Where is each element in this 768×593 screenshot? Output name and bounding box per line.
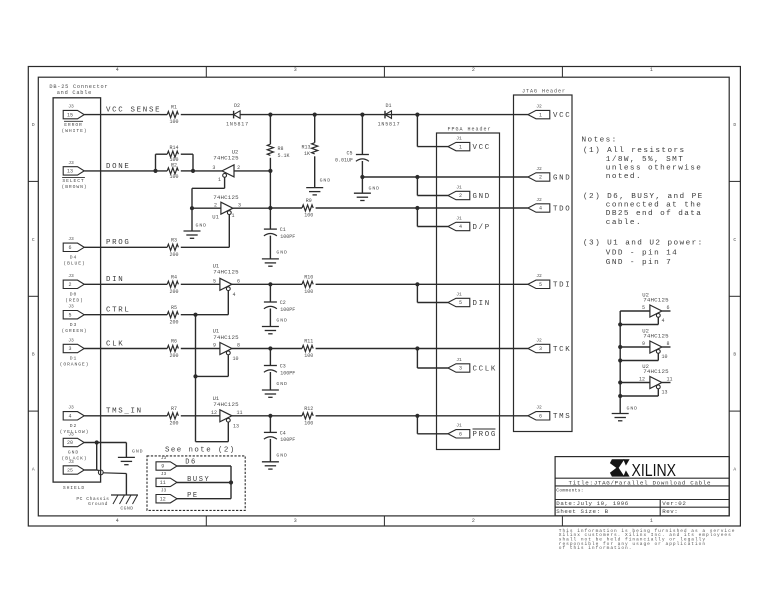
resistor R10 100 [302, 281, 313, 287]
resistor R9 100 [302, 205, 313, 211]
svg-text:R9: R9 [306, 198, 312, 204]
capacitor C3 100PF [269, 349, 271, 366]
wire [240, 114, 528, 116]
svg-text:2: 2 [68, 282, 71, 288]
zone tick [729, 410, 740, 412]
svg-text:CCLK: CCLK [473, 365, 498, 373]
svg-text:J1: J1 [456, 184, 462, 190]
svg-text:4: 4 [539, 206, 542, 212]
svg-text:J3: J3 [68, 304, 74, 310]
svg-text:J3: J3 [68, 236, 74, 242]
svg-text:J3: J3 [161, 488, 167, 494]
svg-text:74HC125: 74HC125 [643, 368, 669, 375]
zone tick [28, 180, 38, 182]
svg-text:R12: R12 [304, 406, 313, 412]
resistor R6 200 [167, 345, 178, 351]
svg-text:R14: R14 [169, 145, 178, 151]
DB-25 connector J3 box [53, 98, 101, 482]
resistor R2 100 [167, 168, 178, 174]
svg-text:6: 6 [539, 414, 542, 420]
svg-text:3: 3 [294, 67, 297, 73]
svg-text:TMS_IN: TMS_IN [106, 408, 143, 416]
svg-text:12: 12 [160, 496, 166, 502]
svg-text:See note (2): See note (2) [165, 447, 236, 455]
node bus junction [618, 394, 622, 398]
svg-text:R3: R3 [171, 237, 177, 243]
wire [316, 283, 528, 285]
svg-text:VCC: VCC [553, 112, 571, 120]
svg-text:2: 2 [539, 175, 542, 181]
svg-text:D4: D4 [70, 255, 77, 261]
svg-text:(BROWN): (BROWN) [62, 184, 88, 190]
wire VCC stub to FPGA header [416, 115, 418, 147]
wire spare output stub [662, 310, 671, 312]
resistor R8 5.1K [269, 115, 271, 145]
svg-text:J3: J3 [68, 459, 74, 465]
svg-text:Notes:: Notes: [582, 136, 618, 144]
wire [316, 207, 528, 209]
dashed box note 2 [147, 456, 245, 511]
wire U1 enable from PROG [228, 215, 230, 248]
svg-text:Ground: Ground [88, 501, 108, 507]
svg-text:D3: D3 [70, 322, 77, 328]
svg-text:2: 2 [472, 518, 475, 524]
svg-text:5: 5 [642, 305, 645, 311]
svg-text:D2: D2 [234, 103, 240, 109]
svg-text:R13: R13 [301, 144, 310, 150]
svg-text:9: 9 [161, 464, 164, 470]
svg-text:1: 1 [459, 144, 462, 150]
svg-text:connected at the: connected at the [606, 202, 703, 210]
zone tick [729, 295, 740, 297]
zone tick [205, 67, 207, 78]
svg-text:9: 9 [642, 341, 645, 347]
svg-text:(YELLOW): (YELLOW) [60, 429, 90, 435]
svg-text:(2) D6, BUSY, and PE: (2) D6, BUSY, and PE [583, 193, 704, 201]
resistor R3 200 [167, 244, 178, 250]
svg-text:J3: J3 [68, 104, 74, 110]
svg-text:and Cable: and Cable [57, 90, 92, 96]
node bus junction [618, 345, 622, 349]
svg-text:U1: U1 [212, 213, 219, 220]
svg-text:FPGA Header: FPGA Header [447, 127, 491, 133]
svg-text:GND: GND [276, 317, 288, 323]
svg-text:B: B [733, 352, 736, 358]
wire spare output stub [662, 346, 671, 348]
svg-text:6: 6 [237, 278, 240, 284]
svg-text:100: 100 [169, 119, 178, 125]
svg-text:B: B [32, 352, 35, 358]
svg-text:CGND: CGND [120, 506, 133, 512]
node bus junction [618, 358, 622, 362]
resistor R4 200 [167, 281, 178, 287]
svg-text:J2: J2 [536, 273, 542, 279]
svg-text:TDO: TDO [553, 205, 571, 213]
resistor R1 [167, 112, 178, 118]
svg-text:VDD - pin 14: VDD - pin 14 [606, 250, 678, 258]
svg-text:4: 4 [232, 292, 235, 298]
wire GND rail [362, 176, 528, 178]
svg-text:6: 6 [68, 245, 71, 251]
svg-text:Ver:02: Ver:02 [662, 500, 686, 507]
wire CTRL rail [84, 314, 167, 316]
svg-text:GND: GND [276, 249, 288, 255]
resistor R14 100 (parallel) [155, 154, 157, 171]
svg-text:DB-25 Connector: DB-25 Connector [49, 84, 108, 90]
svg-text:(WHITE): (WHITE) [62, 128, 88, 134]
svg-text:DIN: DIN [106, 276, 124, 284]
svg-text:200: 200 [169, 420, 178, 426]
svg-text:R4: R4 [171, 274, 177, 280]
svg-text:DIN: DIN [473, 300, 491, 308]
svg-text:1: 1 [539, 112, 542, 118]
svg-text:74HC125: 74HC125 [213, 194, 239, 201]
svg-text:VCC SENSE: VCC SENSE [106, 107, 161, 115]
svg-text:(ORANGE): (ORANGE) [60, 362, 90, 368]
svg-text:A: A [32, 467, 35, 473]
ground [361, 177, 363, 193]
svg-text:D/P: D/P [473, 224, 491, 232]
node shield connection circle [98, 470, 103, 475]
svg-text:R10: R10 [304, 274, 313, 280]
svg-text:A: A [733, 467, 736, 473]
svg-text:13: 13 [67, 169, 73, 175]
svg-text:100PF: 100PF [280, 437, 295, 443]
svg-text:100: 100 [304, 213, 313, 219]
svg-text:(3) U1 and U2 power:: (3) U1 and U2 power: [583, 239, 704, 247]
ground [262, 258, 279, 260]
wire pin25 [84, 469, 97, 471]
node bus junction [618, 322, 622, 326]
svg-text:D1: D1 [70, 356, 77, 362]
zone tick [383, 516, 385, 526]
svg-text:J2: J2 [536, 405, 542, 411]
svg-text:5: 5 [539, 282, 542, 288]
svg-text:SELECT: SELECT [62, 178, 84, 184]
wire DIN stub to FPGA header [416, 284, 418, 302]
sheet inner border frame [38, 77, 729, 516]
node bus junction [618, 380, 622, 384]
svg-text:100: 100 [169, 157, 178, 163]
chassis ground symbol CGND [111, 494, 138, 496]
wire U1 output to D/P rail [233, 207, 271, 209]
svg-text:12: 12 [639, 377, 645, 383]
svg-text:12: 12 [211, 410, 217, 416]
svg-text:1K: 1K [304, 151, 310, 157]
svg-text:74HC125: 74HC125 [643, 332, 669, 339]
wire U1 DIN enable [227, 291, 229, 315]
svg-text:5: 5 [68, 312, 71, 318]
wire spare input [620, 346, 650, 348]
zone tick [561, 516, 563, 526]
svg-text:PROG: PROG [473, 431, 498, 439]
Xilinx logo [610, 459, 630, 476]
wire U1 TMS enable [227, 422, 229, 441]
svg-text:D: D [733, 122, 736, 128]
svg-text:3: 3 [238, 202, 241, 208]
svg-text:6: 6 [459, 432, 462, 438]
svg-text:9: 9 [213, 343, 216, 349]
svg-text:GND: GND [68, 450, 79, 456]
resistor R12 100 [302, 413, 313, 419]
wire [181, 114, 234, 116]
svg-text:VCC: VCC [473, 144, 491, 152]
svg-text:C1: C1 [280, 227, 286, 233]
svg-text:6: 6 [667, 305, 670, 311]
svg-text:10: 10 [662, 354, 668, 360]
wire GND stub to FPGA header [416, 177, 418, 196]
svg-text:100: 100 [169, 174, 178, 180]
svg-text:C: C [32, 237, 35, 243]
svg-text:J2: J2 [536, 166, 542, 172]
svg-text:(RED): (RED) [65, 298, 84, 304]
svg-text:CLK: CLK [106, 340, 124, 348]
svg-text:TCK: TCK [553, 346, 571, 354]
svg-text:Rev:: Rev: [662, 508, 678, 515]
svg-text:C: C [733, 237, 736, 243]
svg-text:GND: GND [276, 453, 288, 459]
svg-text:1N5817: 1N5817 [378, 121, 401, 127]
svg-text:8: 8 [667, 341, 670, 347]
svg-text:D1: D1 [385, 103, 391, 109]
svg-text:R8: R8 [278, 146, 284, 152]
svg-text:J3: J3 [68, 405, 74, 411]
svg-text:Date:July 10, 1996: Date:July 10, 1996 [556, 500, 629, 507]
wire [316, 348, 528, 350]
wire PROG stub to FPGA header [416, 416, 418, 434]
svg-text:74HC125: 74HC125 [213, 401, 239, 408]
svg-text:2: 2 [472, 67, 475, 73]
svg-text:DONE: DONE [106, 163, 131, 171]
svg-text:J3: J3 [161, 455, 167, 461]
diode D1 1N5817 [384, 111, 386, 119]
svg-text:100: 100 [304, 420, 313, 426]
svg-text:200: 200 [169, 289, 178, 295]
svg-text:2: 2 [459, 193, 462, 199]
svg-text:noted.: noted. [606, 173, 642, 181]
svg-text:13: 13 [233, 423, 239, 429]
svg-text:PROG: PROG [106, 239, 131, 247]
wire spare input [620, 310, 650, 312]
svg-text:GND: GND [473, 193, 491, 201]
svg-text:C2: C2 [280, 300, 286, 306]
wire DONE to D/P link [269, 171, 271, 208]
svg-text:GND: GND [553, 174, 571, 182]
svg-text:5: 5 [459, 300, 462, 306]
title block box [555, 457, 729, 516]
svg-text:74HC125: 74HC125 [213, 334, 239, 341]
svg-text:J2: J2 [536, 197, 542, 203]
svg-text:J2: J2 [536, 103, 542, 109]
capacitor C5 0.01UF [361, 115, 363, 155]
zone tick [561, 67, 563, 78]
wire PROG rail [84, 246, 167, 248]
wire DIN rail [84, 283, 167, 285]
zone tick [729, 180, 740, 182]
svg-text:100: 100 [304, 289, 313, 295]
svg-text:100: 100 [304, 353, 313, 359]
wire spare enable [657, 389, 659, 396]
wire CLK rail [84, 348, 167, 350]
svg-text:J1: J1 [456, 357, 462, 363]
svg-text:1: 1 [218, 177, 221, 183]
svg-text:200: 200 [169, 252, 178, 258]
svg-text:TDI: TDI [553, 282, 571, 290]
wire U1 CLK enable [227, 355, 229, 376]
wire spare output stub [662, 382, 671, 384]
capacitor C1 100PF [269, 208, 271, 229]
svg-text:Comments:: Comments: [556, 488, 584, 494]
ground [262, 461, 279, 463]
svg-text:4: 4 [116, 67, 119, 73]
svg-text:GND: GND [196, 222, 208, 228]
svg-text:3: 3 [212, 165, 215, 171]
wire D/P stub to FPGA header [416, 208, 418, 227]
capacitor C2 100PF [269, 284, 271, 302]
svg-text:3: 3 [294, 518, 297, 524]
resistor R7 200 [167, 413, 178, 419]
svg-text:11: 11 [236, 410, 242, 416]
svg-text:J3: J3 [68, 337, 74, 343]
svg-text:(BLACK): (BLACK) [62, 456, 88, 462]
svg-text:0.01UF: 0.01UF [335, 157, 353, 163]
zone tick [383, 67, 385, 78]
svg-text:1: 1 [231, 213, 234, 219]
svg-text:(1) All resistors: (1) All resistors [583, 147, 686, 155]
wire shield link [96, 443, 98, 471]
zone tick [205, 516, 207, 526]
svg-text:3: 3 [539, 346, 542, 352]
svg-text:(BLUE): (BLUE) [63, 261, 85, 267]
svg-text:2: 2 [214, 202, 217, 208]
wire [193, 170, 222, 172]
wire U2 input [234, 170, 270, 172]
svg-text:200: 200 [169, 353, 178, 359]
svg-text:CTRL: CTRL [106, 307, 131, 315]
svg-text:R2: R2 [171, 162, 177, 168]
svg-text:4: 4 [459, 224, 462, 230]
svg-text:R6: R6 [171, 339, 177, 345]
node VCC junctions [268, 113, 272, 117]
svg-text:GND: GND [132, 448, 144, 454]
svg-text:15: 15 [67, 112, 73, 118]
svg-text:4: 4 [662, 318, 665, 324]
svg-text:3: 3 [68, 346, 71, 352]
wire BUSY [177, 482, 231, 484]
svg-text:1/8W, 5%, SMT: 1/8W, 5%, SMT [606, 156, 684, 164]
svg-text:Title:JTAG/Parallel Download C: Title:JTAG/Parallel Download Cable [569, 479, 712, 486]
svg-text:13: 13 [662, 390, 668, 396]
svg-text:J1: J1 [456, 291, 462, 297]
zone tick [28, 295, 38, 297]
ground [306, 187, 323, 189]
svg-text:8: 8 [237, 343, 240, 349]
svg-text:1N5817: 1N5817 [226, 121, 249, 127]
svg-text:74HC125: 74HC125 [643, 296, 669, 303]
svg-text:4: 4 [68, 414, 71, 420]
svg-text:74HC125: 74HC125 [213, 155, 239, 162]
svg-text:J3: J3 [161, 471, 167, 477]
sheet outer border frame [28, 67, 740, 527]
ground [262, 389, 279, 391]
wire CCLK stub to FPGA header [416, 349, 418, 369]
resistor R5 200 [167, 312, 178, 318]
svg-text:J1: J1 [456, 215, 462, 221]
svg-text:1: 1 [650, 518, 653, 524]
svg-text:TMS: TMS [553, 413, 571, 421]
svg-text:10: 10 [232, 356, 238, 362]
svg-text:J2: J2 [536, 337, 542, 343]
svg-text:XILINX: XILINX [632, 460, 677, 480]
zone tick [28, 410, 38, 412]
svg-text:D: D [32, 122, 35, 128]
svg-text:GND: GND [369, 185, 381, 191]
ground [612, 413, 629, 415]
svg-text:SHIELD: SHIELD [63, 485, 85, 491]
svg-text:5.1K: 5.1K [278, 153, 290, 159]
svg-text:ERROR: ERROR [64, 122, 83, 128]
svg-text:J3: J3 [68, 273, 74, 279]
wire U1 CLK out [232, 348, 302, 350]
svg-text:GND: GND [276, 381, 288, 387]
svg-text:GND: GND [627, 406, 639, 412]
svg-text:100PF: 100PF [280, 234, 295, 240]
wire GND pin20 [84, 442, 126, 444]
svg-text:4: 4 [116, 518, 119, 524]
svg-text:of this information.: of this information. [559, 545, 633, 551]
wire CTRL enable bus [195, 315, 197, 442]
svg-text:GND: GND [320, 178, 332, 184]
svg-text:200: 200 [169, 319, 178, 325]
svg-text:D0: D0 [70, 292, 77, 298]
svg-text:(GREEN): (GREEN) [62, 328, 88, 334]
svg-text:unless otherwise: unless otherwise [606, 164, 703, 172]
svg-text:20: 20 [67, 440, 73, 446]
svg-text:100PF: 100PF [280, 307, 295, 313]
svg-text:R1: R1 [171, 105, 177, 111]
svg-text:Sheet Size: B: Sheet Size: B [556, 508, 608, 515]
wire [316, 415, 528, 417]
svg-text:100PF: 100PF [280, 370, 295, 376]
wire PE [177, 498, 231, 500]
svg-text:C3: C3 [280, 364, 286, 370]
svg-text:GND - pin 7: GND - pin 7 [606, 259, 672, 267]
wire spare enable [657, 317, 659, 324]
wire D6 [177, 465, 231, 467]
wire spare gnd bus [619, 311, 621, 414]
wire D/P rail [270, 207, 302, 209]
wire spare enable [657, 353, 659, 360]
capacitor C4 100PF [269, 416, 271, 433]
svg-text:J1: J1 [456, 135, 462, 141]
svg-text:J3: J3 [68, 431, 74, 437]
svg-text:R11: R11 [304, 339, 313, 345]
diode D2 1N5817 [233, 111, 235, 119]
svg-text:C4: C4 [280, 430, 286, 436]
resistor R13 1K [314, 115, 316, 143]
wire spare input [620, 382, 650, 384]
svg-text:JTAG Header: JTAG Header [522, 89, 566, 95]
svg-text:11: 11 [160, 480, 166, 486]
ground GND symbol [125, 443, 127, 458]
resistor R11 100 [302, 345, 313, 351]
svg-text:1: 1 [650, 67, 653, 73]
wire loop vertical [230, 466, 232, 499]
svg-text:74HC125: 74HC125 [213, 269, 239, 276]
ground [262, 326, 279, 328]
svg-text:R7: R7 [171, 406, 177, 412]
svg-text:cable.: cable. [606, 219, 642, 227]
